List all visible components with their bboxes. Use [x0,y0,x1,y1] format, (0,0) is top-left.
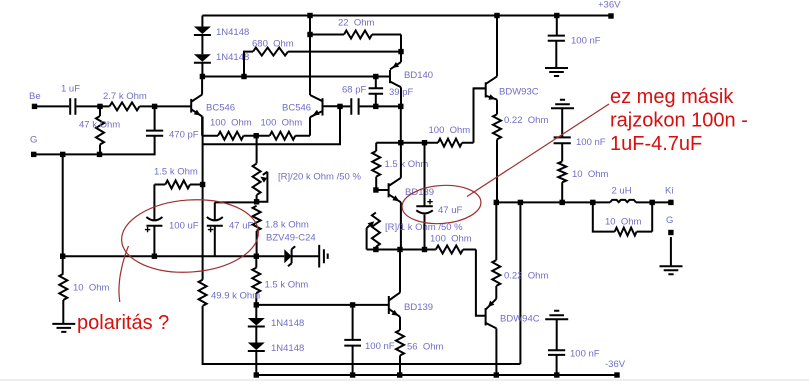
junction L parallel left [590,200,595,205]
wire BD139 base [376,189,389,191]
wire VAS node to 100 Ohm [401,142,438,144]
svg-text:Be: Be [29,91,41,102]
capacitor 47 uF (circled) [416,143,433,250]
svg-text:0.22 Ohm: 0.22 Ohm [504,115,548,126]
terminal Ki [668,200,673,205]
junction rail decoupling [554,13,559,18]
wire to BDW93C base [462,88,486,142]
svg-text:1.5 k Ohm: 1.5 k Ohm [265,280,309,291]
wire BDW93C base stub [474,87,486,89]
transistor BD139 lower [389,293,400,317]
transistor BDW93C [486,76,497,99]
wire Q2 base to node [323,105,341,107]
svg-text:39 pF: 39 pF [389,87,413,98]
junction VAS node [398,140,403,145]
wire C1 to node [76,105,100,107]
resistor 47 k Ohm [96,116,104,145]
wire 47uF top to pot node [215,201,257,203]
wire 2.7k row to Q1 base [100,105,191,107]
wire feedback bottom run [203,202,521,364]
resistor 680 Ohm [253,48,288,56]
ground (zener) [319,245,328,268]
svg-text:rajzokon 100n -: rajzokon 100n - [610,110,748,132]
svg-text:1uF-4.7uF: 1uF-4.7uF [610,133,702,155]
resistor 1.5 k Ohm lower [252,268,260,293]
wire output row left [496,201,610,203]
svg-text:100 nF: 100 nF [571,36,601,47]
resistor 10 Ohm zobel [558,161,566,182]
svg-text:BDW93C: BDW93C [499,87,539,98]
wire comp to VAS collector [376,105,401,107]
page divider [0,379,809,380]
resistor 100 Ohm driver top [438,139,462,147]
svg-text:-36V: -36V [605,359,626,370]
svg-text:100 Ohm: 100 Ohm [261,118,303,129]
junction 22 Ohm / Q2 column [307,32,312,37]
wire 1.5k to 100uF [153,185,155,220]
wire +36 decoupling [556,16,558,36]
red pointer line left [119,246,129,302]
svg-text:10 Ohm: 10 Ohm [73,283,110,294]
svg-text:1N4148: 1N4148 [271,318,304,329]
wire 0.22 to BDW94C emitter [495,286,497,299]
wire BDW93C emitter [496,100,498,115]
terminal G input [31,152,36,157]
node G rail / 47k [97,152,102,157]
junction diode chain / Q1 collector [200,74,205,79]
ground (shunt) [52,324,75,332]
svg-text:G: G [666,215,673,226]
wire 10 Ohm column [62,256,65,324]
wire output row right [636,201,671,203]
wire emitter row [202,135,310,137]
wire zobel cap to ground [561,108,563,137]
wire 680 Ohm to BD140 emitter node [288,51,401,53]
wire 1.5k to BD139 base node [375,177,377,190]
capacitor 100 uF electrolytic [145,217,163,256]
terminal -36V [614,372,619,377]
zener diode BZV49-C24 [256,246,319,266]
junction 100 uF bottom [152,254,157,259]
junction zener column / base row [254,302,259,307]
svg-text:100 Ohm: 100 Ohm [430,234,472,245]
node G rail / shunt column [60,152,65,157]
wire Q2 emitter [309,117,311,136]
wire BD139 lower base row [256,304,389,306]
wire +36V top rail [202,15,611,17]
red ellipse 47uF circle [401,183,482,226]
svg-text:680 Ohm: 680 Ohm [252,39,294,50]
resistor 10 Ohm parallel [593,202,652,235]
capacitor 100 nF -36V [548,350,565,355]
resistor 100 Ohm emitter right [270,132,296,140]
wire cap to rail [556,355,558,375]
svg-text:1.8 k Ohm: 1.8 k Ohm [265,220,309,231]
wire 39 pF column [375,77,377,107]
resistor 0.22 Ohm lower [492,260,500,286]
node tail [254,133,259,138]
wire Q2 collector column [309,16,311,96]
diode D4 1N4148 [248,343,265,351]
svg-text:Ki: Ki [665,186,673,197]
wire 22 Ohm row [310,35,401,52]
svg-text:1N4148: 1N4148 [216,27,249,38]
ground (+36V decoupling) [545,68,568,76]
junction BD140 collector [398,104,403,109]
transistor Q1 BC546 [191,95,202,117]
ground (zobel, inverted) [551,100,574,109]
wire BD139 lower emitter [399,317,401,330]
junction 56 Ohm rail [397,372,402,377]
resistor 100 Ohm emitter left [218,132,244,140]
wire shunt row [63,255,257,257]
wire BD140 emitter [400,52,402,62]
wire driver mid row left [367,249,436,251]
junction rail / BDW93C [494,13,499,18]
wire Q1 emitter [201,116,203,135]
resistor 22 Ohm [344,31,372,39]
resistor 1.5 k Ohm bias upper [372,151,380,177]
resistor 56 Ohm [396,330,404,356]
capacitor 1 uF input [70,98,75,115]
junction 47 uF top [422,140,427,145]
transistor Q2 BC546 [310,95,323,117]
svg-text:BC546: BC546 [206,103,235,114]
wire D1 to D2 [201,35,203,54]
svg-text:1 uF: 1 uF [61,84,80,95]
resistor 49.9 k Ohm feedback [199,280,207,306]
terminal +36V [608,13,613,18]
wire 1.5k top corner [376,143,401,151]
svg-text:10 Ohm: 10 Ohm [572,169,609,180]
svg-text:10 Ohm: 10 Ohm [605,217,642,228]
terminal G output [668,230,673,235]
wire 1.5k feedback row [154,184,202,186]
svg-text:BC546: BC546 [282,103,311,114]
wire D3 to D4 [255,327,257,343]
junction feedback / 1.5k [200,182,205,187]
wire pot bottom [375,247,377,250]
wire Be to C1 [35,105,70,107]
junction -36V decoupling [554,372,559,377]
wire Q1 collector [201,77,203,95]
svg-text:56 Ohm: 56 Ohm [407,342,444,353]
svg-text:polaritás ?: polaritás ? [77,312,169,334]
capacitor 39 pF [369,88,384,94]
junction BDW94C rail [494,372,499,377]
resistor 1.5 k Ohm feedback [165,181,190,189]
junction pot1 bottom [254,199,259,204]
wire zobel [561,143,563,202]
junction 47 uF bottom [422,247,427,252]
svg-text:+36V: +36V [598,0,621,11]
svg-text:100 nF: 100 nF [576,137,606,148]
terminal Be input [32,104,37,109]
svg-text:G: G [30,135,37,146]
inductor 2 uH [610,200,636,203]
wire feedback to Q2 base [203,106,340,144]
wire D4 to rail [255,351,257,375]
capacitor 100 nF +36V [548,36,565,41]
ground (-36V decoupling, inverted) [545,311,568,320]
junction pot bottom [373,247,378,252]
wire 56 Ohm to rail [399,356,401,376]
wire 47k vertical [99,106,101,154]
svg-text:BDW94C: BDW94C [500,314,540,325]
svg-text:47 uF: 47 uF [229,221,253,232]
junction zobel [560,200,565,205]
svg-text:BD139: BD139 [404,302,433,313]
svg-text:[R]/20 k Ohm /50 %: [R]/20 k Ohm /50 % [278,172,361,183]
node input RC [97,104,102,109]
wire BD139 lower collector [399,250,401,293]
node Q1 base [152,104,157,109]
capacitor 100 nF lower left [344,305,361,375]
transistor BD140 [390,62,401,87]
svg-text:49.9 k Ohm: 49.9 k Ohm [211,291,260,302]
svg-text:0.22 Ohm: 0.22 Ohm [504,271,548,282]
wire feedback column [202,116,204,279]
wire 470pF top [154,106,156,130]
svg-text:1.5 k Ohm: 1.5 k Ohm [154,167,198,178]
junction zener anode [254,254,259,259]
wire BD140 collector [400,87,402,106]
potentiometer wiper [R]/20k [257,172,267,202]
junction BD139 base node [373,187,378,192]
svg-text:BD139: BD139 [405,187,434,198]
resistor 2.7 k Ohm [110,102,140,110]
wire 680 Ohm corner [244,52,253,77]
junction L parallel right [650,200,655,205]
capacitor 100 nF zobel [554,137,571,143]
junction comp caps [373,104,378,109]
junction 100 nF top [350,302,355,307]
junction shunt row left [60,254,65,259]
svg-text:47 uF: 47 uF [438,205,462,216]
wire BD139 emitter [400,202,402,249]
junction 39 pF top [373,74,378,79]
svg-text:100 Ohm: 100 Ohm [429,125,471,136]
ground (output) [660,266,683,274]
wire BD139 collector [400,143,402,178]
resistor 1.8 k Ohm [253,206,261,231]
transistor BD139 upper [389,178,401,203]
capacitor 47 uF electrolytic left [207,202,223,256]
junction 100 nF rail [350,372,355,377]
svg-text:68 pF: 68 pF [342,85,366,96]
svg-text:2.7 k Ohm: 2.7 k Ohm [103,91,147,102]
svg-text:ez meg másik: ez meg másik [610,86,734,108]
wire BDW93C collector column [496,16,498,77]
potentiometer [R]/20 k Ohm element [253,164,261,196]
diode D1 1N4148 [194,27,211,35]
wire G to shunt row [62,154,64,256]
resistor 100 Ohm driver bottom [436,246,463,254]
wire bias node row to BD140 base [202,76,390,78]
svg-text:BZV49-C24: BZV49-C24 [266,233,316,244]
wire BDW94C collector [495,328,497,375]
wire to D3 [255,305,257,318]
svg-text:47 k Ohm: 47 k Ohm [79,120,120,131]
junction 22/680/BD140 [398,49,403,54]
wire output to 0.22 lower [495,202,497,260]
svg-text:100 nF: 100 nF [570,349,600,360]
junction BD139 emitter row [397,247,402,252]
junction Q2 base / feedback [337,104,342,109]
wire to BDW94C base [463,250,486,316]
junction rail / Q2 collector [307,13,312,18]
junction feedback tap [518,200,523,205]
transistor BDW94C [486,299,497,329]
svg-text:BD140: BD140 [404,70,433,81]
svg-text:1.5 k Ohm: 1.5 k Ohm [385,159,429,170]
wire VAS column [400,106,402,142]
svg-text:1N4148: 1N4148 [271,343,304,354]
capacitor 68 pF [351,98,358,115]
wire 470pF bottom to G rail [34,136,155,155]
wire 68 pF row [340,105,376,107]
wire cap to ground [555,41,557,68]
svg-text:22 Ohm: 22 Ohm [338,18,375,29]
wire 1.8k to zener node [256,231,258,256]
potentiometer [R]/1 k Ohm [367,213,380,250]
red ellipse polarity circle [119,195,261,276]
junction 680 Ohm branch [241,74,246,79]
junction output node [494,200,499,205]
svg-text:100 Ohm: 100 Ohm [210,118,252,129]
wire 1.5k lower column [255,256,257,305]
wire rail to D1 [201,16,203,27]
svg-text:100 uF: 100 uF [169,221,199,232]
junction rail left end [254,372,259,377]
diode D3 1N4148 [248,318,265,326]
red note text [610,86,748,155]
svg-text:470 pF: 470 pF [169,130,199,141]
wire gnd to cap [556,319,558,350]
red pointer line right [467,104,609,197]
wire G to ground [670,237,672,266]
capacitor 470 pF [146,131,163,136]
resistor 0.22 Ohm upper [493,114,501,139]
svg-text:2 uH: 2 uH [612,186,632,197]
wire pot1 column [256,136,258,202]
resistor 10 Ohm shunt [59,274,67,300]
wire D2 to node row [201,63,203,77]
wire -36V bottom rail [256,374,617,376]
diode D2 1N4148 [194,54,211,62]
svg-text:100 nF: 100 nF [365,341,395,352]
wire 0.22 to output row [496,139,498,202]
